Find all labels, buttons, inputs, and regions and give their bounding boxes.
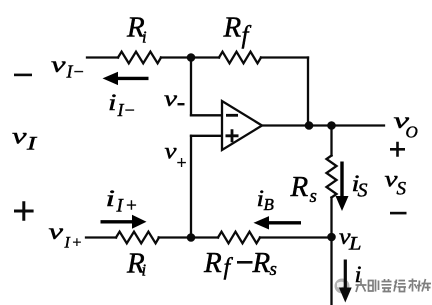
svg-text:v: v — [49, 219, 65, 244]
svg-text:R: R — [203, 247, 222, 279]
source plus sign (left) — [14, 201, 34, 221]
svg-text:f: f — [224, 255, 234, 281]
wire v- branch horizontal to op-amp — [191, 114, 222, 116]
svg-text:i: i — [106, 186, 116, 211]
wire Rs branch upper — [330, 126, 332, 156]
svg-text:I−: I− — [66, 62, 85, 82]
svg-text:O: O — [406, 123, 418, 142]
output minus sign (right, under vS) — [390, 212, 407, 215]
output plus sign (right) — [390, 142, 405, 157]
wire v+ branch vertical — [190, 136, 192, 238]
resistor Rf (top) — [219, 52, 261, 64]
op-amp plus input sign — [226, 129, 239, 142]
svg-text:I: I — [26, 134, 39, 155]
svg-text:R: R — [223, 12, 242, 44]
svg-text:s: s — [270, 259, 277, 280]
svg-text:S: S — [397, 179, 407, 200]
wire v- branch vertical — [190, 58, 192, 116]
wire top rail middle segment — [161, 56, 219, 58]
svg-text:i: i — [142, 261, 147, 280]
svg-text:v: v — [51, 52, 67, 77]
svg-text:i: i — [355, 262, 362, 287]
arrow iB (left) — [254, 216, 302, 229]
wire bottom rail right segment — [260, 236, 332, 238]
svg-text:I+: I+ — [64, 235, 84, 252]
svg-text:S: S — [358, 180, 368, 202]
svg-text:v: v — [12, 124, 28, 149]
resistor Rs (vertical) — [327, 156, 337, 198]
wire feedback vertical — [307, 58, 309, 126]
watermark logo circle — [335, 279, 350, 294]
svg-text:i: i — [142, 28, 147, 47]
wire output rail — [262, 124, 384, 126]
svg-text:B: B — [264, 195, 275, 214]
svg-text:I−: I− — [117, 100, 136, 120]
node junction dot bottom (v+) — [187, 233, 196, 242]
svg-text:i: i — [108, 90, 117, 115]
svg-text:L: L — [348, 234, 362, 255]
arrow iS (down) — [336, 162, 349, 212]
svg-text:I+: I+ — [116, 196, 140, 217]
resistor Rf-Rs (bottom) — [218, 232, 260, 244]
op-amp U1 triangle — [222, 101, 262, 150]
node junction dot output/Rs — [327, 121, 336, 130]
wire load vertical below vL — [330, 238, 332, 305]
wire bottom rail left segment — [86, 236, 116, 238]
arrow iL (down) — [339, 260, 352, 303]
wire bottom rail middle segment — [159, 236, 218, 238]
wire v+ branch horizontal to op-amp — [191, 135, 222, 137]
label Rf-Rs minus — [237, 261, 253, 264]
svg-text:+: + — [176, 153, 188, 173]
wire top rail left segment — [87, 56, 118, 58]
svg-text:v: v — [164, 86, 178, 111]
svg-text:f: f — [242, 22, 252, 49]
resistor Ri (top) — [118, 52, 161, 64]
node junction dot top (v-) — [187, 53, 196, 62]
source minus sign (left) — [14, 74, 32, 77]
wire Rs branch lower — [330, 198, 332, 238]
arrow iI+ (right) — [101, 215, 147, 229]
node junction dot vL — [327, 233, 336, 242]
svg-text:R: R — [252, 247, 271, 279]
watermark text (grey CJK strokes) — [356, 279, 432, 293]
resistor Ri (bottom) — [116, 232, 159, 244]
op-amp minus input sign — [226, 114, 238, 117]
arrow iI- (left) — [103, 72, 149, 85]
wire top rail right segment — [261, 56, 308, 58]
svg-text:s: s — [310, 186, 317, 207]
node junction dot output/feedback — [305, 121, 314, 130]
svg-text:R: R — [290, 171, 309, 203]
